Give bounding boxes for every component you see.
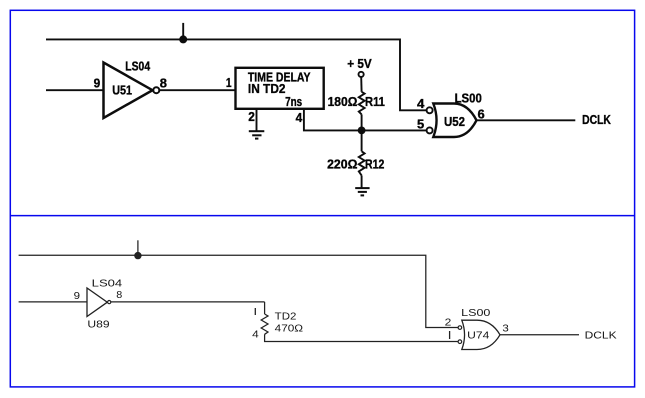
svg-text:TD2: TD2 xyxy=(275,310,297,322)
svg-text:470Ω: 470Ω xyxy=(275,323,304,335)
wire: gate U52 output to DCLK xyxy=(477,119,576,121)
wire: stub above junction xyxy=(182,23,184,40)
wire: gate U74 output to DCLK xyxy=(500,334,579,336)
svg-text:1: 1 xyxy=(226,75,232,90)
pin 1 label TD2 resistor xyxy=(254,308,256,315)
wire: TD2 top lead xyxy=(264,302,266,314)
svg-text:LS04: LS04 xyxy=(92,278,123,290)
ground (delay box pin 2) xyxy=(249,131,264,138)
resistor R12 xyxy=(327,151,384,175)
nand gate U52 (neg-input OR) xyxy=(427,90,482,137)
svg-text:7ns: 7ns xyxy=(285,94,302,109)
svg-text:LS00: LS00 xyxy=(461,307,490,319)
wire: R11 to junction xyxy=(361,114,363,130)
time delay box TD2 xyxy=(236,68,324,109)
svg-text:2: 2 xyxy=(248,109,255,124)
nand gate U74 (neg-input OR) xyxy=(458,307,500,350)
+5V supply terminal xyxy=(347,56,372,77)
resistor TD2 470ohm xyxy=(261,310,303,334)
svg-text:R11: R11 xyxy=(365,94,385,109)
svg-text:4: 4 xyxy=(252,329,259,341)
svg-text:+ 5V: + 5V xyxy=(347,56,372,71)
svg-text:180Ω: 180Ω xyxy=(328,94,358,109)
wire: delay box pin 4 down and right to gate pin 5 xyxy=(304,109,427,131)
svg-text:LS00: LS00 xyxy=(455,90,482,105)
svg-text:DCLK: DCLK xyxy=(585,330,617,342)
svg-text:220Ω: 220Ω xyxy=(327,157,357,172)
wire: TD2 bottom lead and run to gate pin 1 xyxy=(265,334,459,341)
wire: bottom panel top bus to gate pin 2 xyxy=(19,255,459,327)
pin 1 label U74 xyxy=(449,331,451,339)
node junction dot on top bus xyxy=(179,35,187,43)
resistor R11 xyxy=(328,92,385,115)
svg-text:9: 9 xyxy=(74,290,81,302)
wire: inverter U89 output to TD2 xyxy=(111,301,265,303)
svg-text:8: 8 xyxy=(160,76,167,91)
svg-text:5: 5 xyxy=(417,117,424,132)
wire: +5V terminal to R11 xyxy=(360,77,362,92)
wire: delay box pin 2 stub to ground xyxy=(256,109,258,131)
inverter U89 xyxy=(87,278,122,331)
svg-text:9: 9 xyxy=(94,76,101,91)
svg-text:3: 3 xyxy=(502,322,509,334)
inverter U51 xyxy=(104,59,160,118)
svg-text:2: 2 xyxy=(445,316,452,328)
svg-text:IN TD2: IN TD2 xyxy=(248,81,286,96)
ground (below R12) xyxy=(355,188,369,195)
node junction dot bottom bus xyxy=(134,252,141,259)
wire: junction to R12 xyxy=(361,130,363,151)
svg-text:R12: R12 xyxy=(365,157,384,172)
svg-text:8: 8 xyxy=(116,289,122,301)
wire: input to inverter U89 xyxy=(19,301,87,303)
wire: input to inverter U51 xyxy=(46,89,104,91)
svg-text:4: 4 xyxy=(296,110,303,125)
wire: top horizontal bus to gate pin 4 xyxy=(46,39,427,110)
svg-text:6: 6 xyxy=(478,107,485,122)
svg-text:U52: U52 xyxy=(444,114,465,129)
svg-text:DCLK: DCLK xyxy=(582,112,611,127)
svg-text:LS04: LS04 xyxy=(125,59,150,74)
svg-text:U74: U74 xyxy=(467,329,489,341)
wire: stub above junction xyxy=(137,240,139,255)
svg-text:4: 4 xyxy=(417,96,425,111)
node junction dot between R11 and R12 xyxy=(358,126,366,134)
svg-text:U89: U89 xyxy=(87,318,109,330)
wire: R12 to ground xyxy=(361,175,363,188)
svg-text:U51: U51 xyxy=(112,82,132,97)
wire: inverter output to delay box pin 1 xyxy=(159,89,235,91)
